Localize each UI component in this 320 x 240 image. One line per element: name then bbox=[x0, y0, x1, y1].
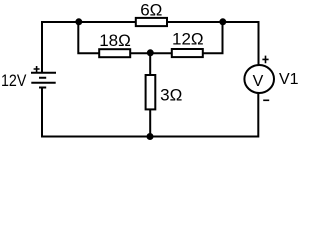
svg-text:6Ω: 6Ω bbox=[140, 1, 162, 20]
svg-text:18Ω: 18Ω bbox=[99, 31, 131, 50]
svg-text:3Ω: 3Ω bbox=[160, 85, 182, 104]
svg-text:12Ω: 12Ω bbox=[172, 29, 204, 48]
svg-text:V: V bbox=[253, 73, 264, 90]
svg-text:12V: 12V bbox=[1, 72, 27, 90]
svg-text:V1: V1 bbox=[279, 71, 299, 88]
